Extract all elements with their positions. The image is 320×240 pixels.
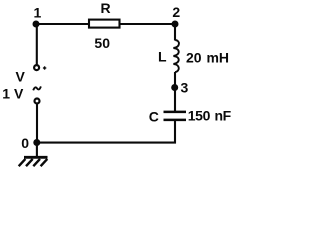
svg-text:20 mH: 20 mH — [186, 49, 229, 65]
wire node2 to inductor — [174, 24, 176, 41]
plus sign of source — [43, 66, 46, 69]
svg-text:1 V: 1 V — [2, 85, 24, 101]
svg-text:C: C — [149, 109, 159, 125]
wire resistor to node2 — [120, 23, 175, 25]
resistor R1 body — [89, 20, 120, 28]
wire node1 to resistor — [36, 23, 89, 25]
wire inductor to node3 to capacitor — [174, 72, 176, 112]
AC tilde of source — [33, 86, 41, 90]
capacitor C1 bottom plate — [164, 119, 187, 122]
voltage source V1 minus terminal — [35, 99, 40, 104]
svg-text:V: V — [16, 69, 26, 85]
svg-text:3: 3 — [181, 79, 189, 95]
svg-text:1: 1 — [34, 5, 42, 21]
node 0 junction dot — [33, 139, 40, 146]
ground bar — [24, 156, 48, 159]
svg-text:50: 50 — [94, 35, 110, 51]
capacitor C1 top plate — [164, 111, 187, 114]
svg-text:L: L — [158, 48, 167, 64]
svg-text:150 nF: 150 nF — [188, 108, 232, 124]
svg-text:R: R — [100, 0, 110, 16]
inductor L1 coil — [173, 40, 179, 72]
ground hatch lines — [19, 159, 48, 166]
wire source minus terminal to node0 — [36, 104, 38, 143]
node 2 junction dot — [172, 21, 179, 28]
voltage source V1 plus terminal — [34, 65, 39, 70]
svg-text:0: 0 — [21, 135, 29, 151]
wire node1 to source plus terminal — [36, 24, 38, 65]
svg-text:2: 2 — [172, 4, 180, 20]
wire capacitor to bottom corner — [37, 121, 176, 143]
node 3 junction dot — [171, 84, 178, 91]
node 1 junction dot — [33, 21, 40, 28]
wire node0 to ground — [36, 143, 38, 157]
